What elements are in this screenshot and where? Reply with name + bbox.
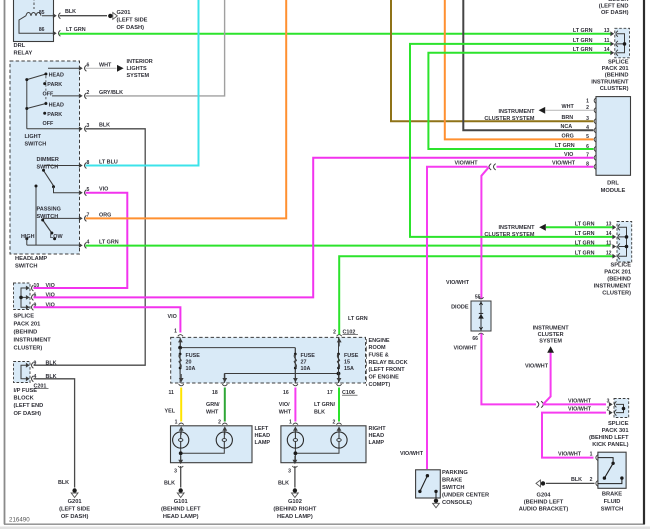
wire WHT from switch pin 6 to interior lights system [86,67,117,69]
svg-text:YEL: YEL [165,408,176,414]
svg-text:SPLICE: SPLICE [608,60,629,66]
svg-text:LT BLU: LT BLU [99,159,118,165]
svg-text:11: 11 [606,241,612,247]
svg-text:HIGH: HIGH [21,234,35,240]
svg-text:G204: G204 [537,492,552,498]
svg-text:14: 14 [604,47,610,53]
svg-text:1: 1 [174,328,177,334]
svg-text:OFF: OFF [43,121,54,127]
pin 1 right head lamp [293,423,298,425]
svg-text:(LEFT FRONT: (LEFT FRONT [369,367,406,373]
right head lamp box [281,426,366,463]
svg-text:HEAD LAMP): HEAD LAMP) [277,514,313,520]
svg-text:PACK 201: PACK 201 [602,66,629,72]
svg-text:INTERIOR: INTERIOR [127,59,153,65]
svg-text:FUSE: FUSE [344,353,359,359]
svg-text:(BEHIND: (BEHIND [605,73,629,79]
svg-text:2: 2 [333,329,336,335]
arrow to INSTRUMENT CLUSTER SYSTEM (mid) [539,224,546,231]
svg-text:SPLICE: SPLICE [14,314,35,320]
svg-text:BLK: BLK [65,9,76,15]
svg-text:HEAD: HEAD [49,102,64,108]
svg-text:LIGHTS: LIGHTS [127,66,147,72]
pin 2 DRL module [594,107,596,113]
svg-text:LT GRN: LT GRN [348,316,368,322]
svg-text:66: 66 [472,336,478,342]
svg-text:1: 1 [289,419,292,425]
svg-text:BLOCK: BLOCK [608,0,629,3]
svg-text:INSTRUMENT: INSTRUMENT [533,326,570,332]
svg-text:FLUID: FLUID [604,499,621,505]
svg-text:VIO: VIO [168,314,177,320]
pin 3 left head lamp [178,466,183,468]
wire LT GRN from mid splice pin 13 to instrument cluster system [546,226,613,228]
svg-text:DIMMER: DIMMER [37,157,59,163]
pin 2 headlamp switch [79,94,83,99]
pin 5 headlamp switch [79,190,83,195]
pin 8 headlamp switch [79,163,83,168]
wire GRY/BLK from switch pin 2 to top of page [86,0,225,96]
wire LT GRN from top splice pin 11 to mid splice pin 14 [410,44,613,237]
svg-text:VIO/WHT: VIO/WHT [455,161,479,167]
svg-text:VIO/WHT: VIO/WHT [568,398,592,404]
svg-text:CLUSTER: CLUSTER [538,332,564,338]
svg-text:VIO: VIO [46,283,55,289]
pin 3 headlamp switch [79,126,83,131]
wire VIO from splice 201 pin 6 to DRL module pin 7 [34,158,594,298]
I/P fuse block box [14,362,34,383]
svg-text:DIODE: DIODE [451,305,469,311]
svg-text:SPLICE: SPLICE [608,421,629,427]
fuse 15 15A [337,348,359,374]
wire VIO/WHT connector up to arrow [543,352,551,405]
wire LT GRN from C102 pin 2 to splice pack 201 pin 12 [339,256,612,334]
bulb left head lamp low [173,432,189,448]
pin 18 engine fuse block [222,384,227,386]
svg-text:86: 86 [39,27,45,33]
wire VIO/WHT to splice pack 301 pin 3 [543,403,606,405]
splice pack 201 left box [14,283,34,310]
wire VIO/WHT connector to corner [427,167,488,469]
ground G204 [536,480,545,487]
svg-text:ENGINE: ENGINE [369,338,390,344]
svg-text:LAMP: LAMP [369,440,385,446]
svg-text:LT GRN: LT GRN [99,240,119,246]
svg-text:WHT: WHT [279,409,292,415]
svg-text:BLK: BLK [46,360,57,366]
svg-text:FUSE &: FUSE & [369,353,389,359]
ground G201 (bottom) [71,488,78,497]
svg-text:VIO/WHT: VIO/WHT [525,364,549,370]
wire BLK from DRL relay 85 to G201 [60,15,108,17]
svg-text:SYSTEM: SYSTEM [127,73,150,79]
svg-text:LT GRN: LT GRN [575,241,595,247]
pin 3 DRL module [594,118,596,124]
svg-text:FUSE: FUSE [301,353,316,359]
svg-text:SWITCH: SWITCH [25,141,47,147]
inline connector on VIO/WHT [489,164,496,170]
svg-text:BRAKE: BRAKE [602,492,622,498]
wire BLK from brake fluid switch pin 2 to G204 [546,482,595,484]
svg-text:HEADLAMP: HEADLAMP [15,256,47,262]
svg-text:(BEHIND: (BEHIND [14,330,38,336]
svg-text:(BEHIND: (BEHIND [607,277,631,283]
svg-text:14: 14 [606,231,612,237]
svg-text:VIO/WHT: VIO/WHT [558,452,582,458]
wire BLK from I/P fuse block pin 4 to G201 [34,379,75,488]
inline connector on VIO/WHT at bottom [537,401,544,407]
svg-text:17: 17 [327,390,333,396]
svg-text:HEAD: HEAD [255,433,271,439]
relay DRL RELAY box [14,0,61,42]
svg-text:PARKING: PARKING [442,470,468,476]
svg-text:BRAKE: BRAKE [442,478,462,484]
svg-text:216490: 216490 [9,517,30,524]
svg-text:ORG: ORG [99,212,111,218]
switch BRAKE FLUID SWITCH box [596,452,626,488]
svg-text:WHT: WHT [562,104,575,110]
wire ORG from switch pin 7 to top of page [86,0,287,218]
svg-text:VIO/WHT: VIO/WHT [552,161,576,167]
wire BRN from top of page to DRL module pin 3 [391,0,594,121]
svg-text:LEFT: LEFT [255,426,269,432]
wire WHT from DRL module pin 2 to instrument cluster system [546,109,594,111]
svg-text:LIGHT: LIGHT [25,134,42,140]
svg-text:FUSE: FUSE [186,353,201,359]
svg-text:10: 10 [34,283,40,289]
svg-text:BLK: BLK [571,477,582,483]
svg-text:(LEFT END: (LEFT END [14,403,44,409]
svg-text:BRN: BRN [562,115,574,121]
svg-text:6: 6 [87,63,90,69]
diode box [471,297,491,334]
svg-text:LAMP: LAMP [255,440,271,446]
svg-text:COMPT): COMPT) [369,382,391,388]
svg-text:(LEFT SIDE: (LEFT SIDE [59,506,90,512]
svg-text:OFF: OFF [43,91,54,97]
svg-text:RELAY BLOCK: RELAY BLOCK [369,360,408,366]
splice pack 201 top right box [610,28,629,58]
svg-text:2: 2 [218,419,221,425]
svg-text:BLK: BLK [58,480,69,486]
svg-text:INSTRUMENT: INSTRUMENT [498,225,535,231]
svg-text:PASSING: PASSING [37,207,61,213]
pin 16 engine fuse block [293,384,298,386]
svg-text:AUDIO BRACKET): AUDIO BRACKET) [519,506,569,512]
pin 7 headlamp switch [79,216,83,221]
svg-text:CLUSTER): CLUSTER) [14,346,43,352]
switch PARKING BRAKE SWITCH box [416,470,441,498]
pin 3 right head lamp [292,466,297,468]
wire BLK from switch pin 3 to I/P fuse block pin 9 [34,129,146,365]
pin 5 DRL module [594,136,596,142]
pin 7 DRL module [594,155,596,161]
svg-text:(BEHIND LEFT: (BEHIND LEFT [589,435,629,441]
svg-text:LT GRN: LT GRN [573,28,593,34]
svg-text:WHT: WHT [206,409,219,415]
svg-text:DRL: DRL [14,43,26,49]
svg-text:PACK 301: PACK 301 [602,428,629,434]
svg-text:VIO/WHT: VIO/WHT [568,407,592,413]
wire VIO/WHT from diode pin 66 to instrument cluster system [481,334,536,405]
pin 4 headlamp switch [79,243,83,248]
svg-text:I/P FUSE: I/P FUSE [14,388,38,394]
svg-text:VIO/WHT: VIO/WHT [446,280,470,286]
pin 1 engine fuse block [178,335,183,337]
ground G201 (top) [108,13,117,20]
left brace of engine block label [366,339,368,386]
svg-text:INSTRUMENT: INSTRUMENT [591,79,629,85]
svg-text:VIO/: VIO/ [279,402,290,408]
svg-text:ROOM: ROOM [369,345,387,351]
pin 1 DRL module [594,98,596,104]
wire VIO from switch pin 5 to splice pack 201 pin 10 [34,193,128,288]
splice pack 301 box [609,399,629,418]
svg-text:BLK: BLK [99,123,110,129]
svg-text:SYSTEM: SYSTEM [539,339,562,345]
svg-text:HEAD: HEAD [369,433,385,439]
svg-text:11: 11 [169,390,175,396]
svg-text:10A: 10A [186,366,196,372]
svg-text:VIO: VIO [564,152,573,158]
svg-text:BLK: BLK [164,481,175,487]
svg-text:LT GRN: LT GRN [66,27,86,33]
fuse 27 10A [294,348,315,374]
wire NCA from top of page to DRL module pin 4 [463,0,593,130]
svg-text:27: 27 [301,359,307,365]
svg-text:LT GRN: LT GRN [573,47,593,53]
svg-text:OF DASH): OF DASH) [117,25,145,31]
svg-text:SWITCH: SWITCH [442,485,464,491]
svg-text:SWITCH: SWITCH [601,506,623,512]
svg-text:GRN/: GRN/ [206,402,220,408]
engine room fuse and relay block box [171,337,366,383]
svg-text:13: 13 [604,28,610,34]
wire VIO from splice 201 pin 9 to engine fuse block pin 1 [34,307,181,332]
wire GRN/WHT fuse block pin 18 to left head lamp pin 2 [224,388,226,422]
svg-text:(BEHIND RIGHT: (BEHIND RIGHT [273,506,316,512]
svg-text:(UNDER CENTER: (UNDER CENTER [442,493,489,499]
pin 6 DRL module [594,146,596,152]
svg-text:INSTRUMENT: INSTRUMENT [498,109,535,115]
svg-text:DRL: DRL [607,181,619,187]
pin 17 connector C106 [336,384,341,386]
svg-text:3: 3 [288,468,291,474]
svg-text:(LEFT SIDE: (LEFT SIDE [117,18,148,24]
svg-text:3: 3 [174,468,177,474]
svg-text:PARK: PARK [47,112,62,118]
svg-text:CLUSTER SYSTEM: CLUSTER SYSTEM [484,232,535,238]
svg-text:55: 55 [475,294,481,300]
svg-text:LT GRN: LT GRN [575,250,595,256]
arrow to INSTRUMENT CLUSTER SYSTEM (top) [539,107,546,114]
svg-text:7: 7 [586,153,589,159]
arrow to INTERIOR LIGHTS SYSTEM [117,65,124,72]
svg-text:MODULE: MODULE [601,188,626,194]
svg-text:INSTRUMENT: INSTRUMENT [594,284,632,290]
svg-text:G101: G101 [174,499,188,505]
switch HEADLAMP SWITCH box [10,61,80,254]
svg-text:LOW: LOW [50,234,63,240]
svg-text:VIO/WHT: VIO/WHT [454,345,478,351]
svg-text:LT GRN/: LT GRN/ [314,402,336,408]
svg-text:1: 1 [590,452,593,458]
pin 2 right head lamp [336,423,341,425]
svg-text:CONSOLE): CONSOLE) [442,500,472,506]
wire VIO/WHT fuse block pin 16 to right head lamp pin 1 [294,388,296,422]
svg-text:RELAY: RELAY [14,50,33,56]
svg-text:LT GRN: LT GRN [555,143,575,149]
wire VIO/WHT from DRL module pin 8 to parking brake switch [497,166,594,168]
wire LT GRN from DRL relay 86 to splice pack 201 pin 13 [60,33,611,35]
arrow to INSTRUMENT CLUSTER SYSTEM (bottom) [547,346,554,353]
svg-text:18: 18 [212,390,218,396]
svg-text:OF DASH): OF DASH) [14,411,42,417]
svg-text:SWITCH: SWITCH [15,263,37,269]
svg-text:SWITCH: SWITCH [37,214,59,220]
svg-text:HEAD: HEAD [49,73,64,79]
svg-text:VIO: VIO [99,187,108,193]
svg-text:(BEHIND LEFT: (BEHIND LEFT [161,506,201,512]
svg-text:LT GRN: LT GRN [575,231,595,237]
bulb right head lamp low [287,432,303,448]
svg-text:KICK PANEL): KICK PANEL) [592,442,628,448]
svg-text:OF ENGINE: OF ENGINE [369,375,400,381]
wire LT GRN from switch pin 4 to splice pack 201 pin 11 [86,245,611,247]
wire LT BLU from switch pin 8 to top of page [86,0,199,166]
pin 8 DRL module [594,164,596,170]
svg-text:HEAD LAMP): HEAD LAMP) [163,514,199,520]
fuse 20 10A [179,348,201,374]
bulb right head lamp high [331,432,347,448]
svg-text:9: 9 [34,360,37,366]
svg-text:OF DASH): OF DASH) [601,10,629,16]
svg-text:G201: G201 [68,499,82,505]
svg-text:G102: G102 [288,499,302,505]
svg-text:1: 1 [175,419,178,425]
svg-text:RIGHT: RIGHT [369,426,387,432]
pin 2 connector C102 [337,335,342,337]
svg-text:15: 15 [344,359,350,365]
ground G102 [292,488,299,497]
svg-text:20: 20 [186,359,192,365]
svg-text:PACK 201: PACK 201 [14,322,41,328]
svg-text:VIO/WHT: VIO/WHT [400,451,424,457]
svg-text:1: 1 [586,99,589,105]
svg-text:(LEFT END: (LEFT END [599,4,629,10]
wire BLK left head lamp pin 3 to G101 [180,466,182,488]
svg-text:(BEHIND LEFT: (BEHIND LEFT [524,499,564,505]
pin 4 DRL module [594,127,596,133]
svg-text:85: 85 [39,10,45,16]
wire VIO/WHT branch to diode pin 55 [481,167,488,299]
svg-text:PARK: PARK [47,82,62,88]
left head lamp box [171,426,253,463]
svg-text:OF DASH): OF DASH) [61,514,89,520]
bulb left head lamp high [216,432,232,448]
svg-text:NCA: NCA [561,124,573,130]
wire ORG from top of page to DRL module pin 5 [445,0,594,139]
wire LT GRN/BLK fuse block pin 17 to right head lamp pin 2 [338,388,340,422]
ground G101 [177,488,184,497]
svg-text:12: 12 [606,250,612,256]
pin 2 left head lamp [222,423,227,425]
svg-text:2: 2 [590,477,593,483]
svg-text:CLUSTER): CLUSTER) [600,86,629,92]
svg-text:15A: 15A [344,366,354,372]
ground at parking brake switch [433,499,440,508]
svg-text:WHT: WHT [99,63,112,69]
svg-text:BLK: BLK [314,409,325,415]
svg-text:GRY/BLK: GRY/BLK [99,90,123,96]
wire VIO/WHT from splice 301 pin 2 to brake fluid switch pin 1 [542,413,606,458]
wire LT GRN from splice 201 pin 14 to DRL module pin 6 [428,53,610,149]
svg-text:G201: G201 [117,10,131,16]
svg-text:16: 16 [283,390,289,396]
wire YEL fuse block pin 11 to left head lamp pin 1 [180,388,182,422]
svg-text:CLUSTER): CLUSTER) [602,291,631,297]
splice pack 201 mid right box [612,222,631,263]
svg-text:BLK: BLK [278,481,289,487]
svg-text:SPLICE: SPLICE [610,263,631,269]
pin 1 left head lamp [179,423,184,425]
pin 6 headlamp switch [79,66,83,71]
module DRL MODULE box [596,97,631,176]
svg-text:2: 2 [332,419,335,425]
svg-text:10A: 10A [301,366,311,372]
svg-text:BLOCK: BLOCK [14,396,35,402]
svg-text:ORG: ORG [562,133,574,139]
pin 11 engine fuse block [179,384,184,386]
svg-text:PACK 201: PACK 201 [604,270,631,276]
svg-text:INSTRUMENT: INSTRUMENT [14,338,52,344]
wire BLK right head lamp pin 3 to G102 [294,466,296,488]
